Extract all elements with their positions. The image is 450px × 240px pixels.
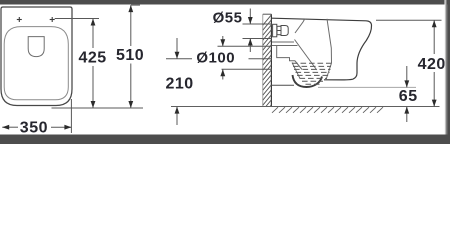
svg-text:350: 350 <box>20 120 48 137</box>
svg-text:425: 425 <box>79 49 107 66</box>
svg-text:65: 65 <box>399 88 418 105</box>
svg-text:Ø55: Ø55 <box>213 10 243 27</box>
svg-text:510: 510 <box>116 47 144 64</box>
svg-text:420: 420 <box>418 56 446 73</box>
svg-text:Ø100: Ø100 <box>196 50 235 67</box>
svg-text:210: 210 <box>166 76 194 93</box>
